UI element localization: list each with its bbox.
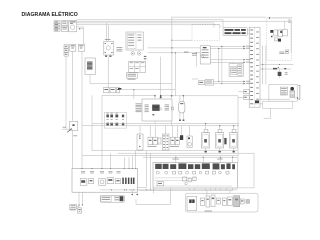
fuse F12 [122,123,124,126]
arrow mark up [277,67,279,68]
lamp bank L1 [122,178,134,184]
wire drops into panel [110,153,112,168]
relay KA8 [240,199,244,204]
fuse F5 [106,115,109,118]
wire x270.7 drop [270,108,272,118]
wire vertical x102 [101,95,103,168]
wire drop x223 [222,20,224,28]
bracket terminal [299,85,301,99]
wire drop x108.7 [108,25,110,42]
motor M1 [179,101,185,113]
relay KA9 shaded [246,200,250,204]
net label y53 [184,51,189,54]
fuse F1 [62,21,68,26]
dark connector CN9 [255,100,259,103]
wire y193.3 [201,192,230,194]
ladder wire x221.9 [221,46,223,83]
diode block D1 [270,30,273,33]
label caption [70,209,76,212]
fuse F2 [62,26,69,31]
resistor R1 [274,30,278,36]
cluster bottom stubs [170,188,172,190]
wire vertical x238 [237,96,239,163]
wire ign y52.8 [148,52,201,54]
fuse F11 [115,123,118,126]
wire U4 up [232,62,234,63]
gauge G5 [116,179,121,184]
wire drop x220 [219,25,221,28]
switch unit U5b [205,80,213,86]
wire vertical x82 [81,51,83,168]
wire y103.9 [252,103,262,105]
U1 side pin [171,107,173,110]
relay KA2 [206,196,210,207]
ignition terminal grid [129,61,146,72]
resistor R7 [158,138,161,144]
fuse F6 [110,115,113,118]
node label dark [118,88,121,90]
node junction x160.7 [160,95,162,97]
connector CN4 [110,88,116,93]
switch S2 stem [219,126,221,129]
cluster parts row [156,171,159,174]
wire y150.7 [92,150,238,152]
fuse F9 [106,123,109,126]
fuse F10 [110,123,113,126]
relay KA7 shaded [234,196,240,207]
connector CN2 pin boxes [64,45,68,48]
sub box lower [263,101,293,108]
horn contact dark [290,87,294,91]
wire y125.6 [82,125,239,127]
arrow mark [271,36,273,38]
lighting cluster box [153,163,238,188]
U1 dark block [152,105,159,111]
wire y155.6 [82,155,238,157]
solenoid Y1 label [73,134,77,137]
switch S1 body [201,133,209,148]
capacitor C1 [282,29,287,36]
wire vertical x171.9 main [171,17,173,96]
resistor R3 [275,38,278,41]
flasher unit U3 [200,46,210,64]
U1 contact circle [159,108,161,110]
gauge G3 with coil [99,179,106,186]
wire vertical x83.6 [83,27,85,45]
wire sensor down [89,75,91,84]
wire link x146.6 [137,151,146,188]
horn label box [280,87,287,95]
wire top y17 [172,16,266,18]
legend dark block [120,196,124,201]
switch S1 head [204,129,208,132]
ignition label box [126,73,137,79]
relay K2 side label [117,47,123,51]
wire drop x106.7 [106,23,108,41]
sensor U2 core [87,62,93,70]
plate to strip links [247,29,249,31]
switch S2 side element [224,138,226,144]
regulator label [279,52,284,54]
regulator U6 dark [278,72,282,76]
fuse F4 [78,44,85,51]
wire y83.5 [90,83,172,85]
wire y204.5 [136,204,171,206]
wire y129.2 label [63,126,67,129]
wire x79 down [78,192,80,208]
switch unit U5a [198,81,205,85]
connector CN7 [238,97,244,99]
switch S3 label [233,151,235,153]
wires U5 right [213,81,244,83]
wire x133.9 drop [133,90,135,99]
relay KA4 [217,198,221,204]
horn arrow [297,97,299,99]
cluster labels below [205,210,213,213]
wires component row drops [139,126,141,134]
cluster sub parts [157,182,164,186]
switch S1 label [205,151,207,153]
wire vertical x262.6 [262,46,264,85]
svg-text:DIAGRAMA ELÉTRICO: DIAGRAMA ELÉTRICO [22,10,78,18]
switch S3 stem [233,126,235,129]
ignition switch box [126,32,143,50]
connector strip CN8 [249,27,260,107]
sensor B3 [187,136,192,147]
U1 right text [165,105,169,111]
node arrow junction top-right [268,17,270,19]
inline connector CN11 [284,68,286,69]
wire y69 [260,68,291,70]
display DS6 [213,163,220,169]
fuse block outline [105,112,127,128]
ignition contacts [131,52,135,56]
wire y95.3 [102,94,155,96]
switch S1 tail [205,148,207,153]
legend plate [100,195,124,202]
relay KA3 [211,195,215,207]
resistor R5 [148,137,152,145]
wire y129.2 [62,128,69,130]
relay K2 [104,41,114,55]
solenoid Y1 [69,122,78,131]
label box K1 [70,204,77,209]
relay box enclosure [186,193,259,212]
diode D6 arrow [136,194,138,196]
connector CN1 pin boxes [54,21,60,23]
wires flasher right [210,45,244,47]
sensor U2 box [85,58,96,75]
display DS8 [226,163,230,169]
inline connector CN10 [273,68,277,70]
wire bus y24.8 [77,24,220,26]
U6 label [285,72,288,74]
switch S3 head [232,129,236,132]
switch S1 stem [205,124,207,130]
R5 R6 labels [148,145,157,148]
U1 inner text [145,105,149,113]
wire label link [77,206,80,208]
fuse labels [107,112,109,115]
wire y157.2 [143,156,238,158]
ladder wire x218.8 [218,49,220,82]
wire y99.2 [259,98,291,100]
control unit U1 [142,99,172,121]
U1 small blob [152,114,154,115]
buzzer H1 [290,91,295,98]
wire x254 loop [238,153,254,188]
wire drop x284.8 [284,21,286,29]
diode D5 arrow [131,194,133,196]
wire relay K2 down [107,57,109,88]
ignition caption [128,78,136,81]
resistor R6 [153,137,157,145]
switch S3 body [229,133,237,148]
wire y190.4 [139,189,233,191]
wire vertical x72.4 upper [71,51,73,121]
ECU dashed enclosure [192,24,219,40]
wire bus y19.8 [77,19,223,21]
wire x170.7 long drop [170,188,172,205]
wire x82.4 down [81,192,83,205]
wire y95.8 [161,95,238,97]
wire y153.2 [118,152,254,154]
diode D4 dark [180,135,183,140]
wire x136 corner [135,199,137,205]
switch S2 tail [219,148,221,153]
wire vertical x66 [65,56,67,129]
display DS7 [221,164,225,169]
connector CN6 [238,91,244,93]
motor terminals [179,120,181,122]
display DS1 [155,164,162,169]
fuse F7 [115,115,118,118]
dashed harness frame [267,18,292,61]
wire top y18 to frame [269,17,293,19]
wire y79 [192,78,198,80]
U1 left labels [136,103,142,107]
flasher label left [192,53,197,56]
wires U1 top [154,96,156,99]
wire link x150.6 [150,153,152,190]
display DS1b [163,164,169,169]
net labels above cluster [172,158,179,161]
switch S2 body [215,133,223,148]
ignition arrows [144,56,147,57]
gauge G4 [107,178,114,184]
relay KA6 [228,197,233,206]
instrument panel box [72,169,137,193]
fuse F3 [70,44,76,51]
wire y89.7 [122,89,176,91]
wire x230 [229,190,231,193]
gauge G1 [80,179,87,186]
node junction x171.6 [171,95,173,97]
display DS2 [170,164,176,169]
wire vertical x265.9 [265,46,267,85]
panel top junction dots [81,168,82,169]
wire drops to cluster box [175,157,177,162]
wire vertical x160.7 [160,57,162,96]
wires U1 bottom [154,121,156,124]
wire y64.5 [260,64,294,66]
relay K2 pins [105,55,107,57]
wire y123.7 [92,123,239,125]
resistor R2 [278,30,282,37]
wire vertical x92 [91,95,93,150]
R8 R9 labels [170,145,179,148]
display DS9 [232,164,235,169]
node junction x133.9 [133,89,134,90]
display DS5 [202,163,210,169]
net arrows right set1 [244,45,245,47]
resistor R9 [175,137,179,145]
node junction x171.9 y40 [171,40,172,41]
wire vertical x175.4 [174,53,176,96]
flasher box [187,196,197,210]
connector label plate [223,28,247,36]
display DS4 [188,164,193,169]
gauge G2 [89,179,94,184]
wire vertical x291 upper [290,21,292,53]
battery B1 block [77,208,81,213]
relay K2 label [105,38,111,41]
cluster inner wires [155,177,197,179]
frame corner labels [288,20,290,23]
wire stub y27 [77,26,84,28]
resistor R8 [170,137,174,145]
display DS3 [178,163,186,169]
wire y40.2 [172,39,192,41]
wire ign y47.9 [148,47,201,49]
sender T1 tall box [137,134,143,150]
relay KA1 [201,198,205,206]
wire x206.9 [206,190,208,196]
motor leads [179,96,181,101]
horn enclosure [269,84,297,101]
switch S2 label [219,151,221,153]
display DS4b [195,164,200,169]
relay K1 with coil [69,21,77,32]
gauge labels [81,171,85,173]
sensor B2 [285,50,288,53]
diode D2 [278,39,281,42]
wire y118.2 [264,117,271,119]
wire drop x214 [213,23,215,28]
relay KA5 [223,198,227,206]
switch S3 tail [233,148,235,153]
wire x196.5 drop [196,53,198,67]
fuse F8 [122,115,124,118]
wire y28.8 with arrow [79,28,81,30]
wire bus y21.2 [77,20,292,22]
pin column X1 [162,134,169,150]
switch S2 head [218,129,222,132]
wire vertical x72.4 lower [71,131,73,169]
wire link x153.6 [153,188,155,193]
control module U4 [229,64,243,77]
wire y189.9 [100,189,238,191]
net arrows right set2 [244,81,245,83]
connector CN5 [117,88,120,93]
wire bus y22.9 [77,22,214,24]
connector CN3 [104,88,110,93]
